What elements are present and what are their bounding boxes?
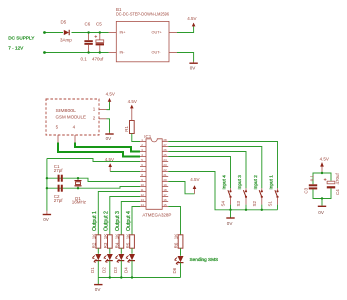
wire bottom supply rail	[45, 52, 109, 54]
capacitor C1	[54, 164, 64, 182]
capacitor C2	[54, 185, 64, 203]
wire top rail after diode	[72, 32, 109, 34]
svg-text:C3: C3	[304, 187, 309, 193]
svg-text:0V: 0V	[43, 217, 50, 222]
wire R6 to D6	[180, 248, 182, 256]
pin OUT+ stub B1	[169, 32, 177, 34]
svg-text:15: 15	[163, 203, 167, 207]
junction C3C4 top	[321, 172, 323, 174]
svg-text:4.5V: 4.5V	[320, 157, 329, 162]
svg-text:S1: S1	[268, 200, 273, 206]
svg-text:1K: 1K	[91, 234, 96, 240]
svg-text:Input 2: Input 2	[253, 175, 258, 190]
wire IC pin20 AVCC to 4.5V	[168, 182, 194, 194]
junction C5 top	[99, 31, 101, 33]
svg-text:D1: D1	[90, 267, 95, 273]
svg-text:Input 3: Input 3	[237, 175, 242, 190]
pin 1 stub GSM	[99, 109, 107, 111]
wire R2 to D1	[97, 248, 99, 254]
svg-text:4.5V: 4.5V	[106, 92, 115, 97]
LED D3	[113, 254, 124, 273]
svg-text:0V: 0V	[227, 221, 234, 226]
wire GSM pin2 to ground	[107, 119, 110, 133]
svg-text:IC1: IC1	[144, 134, 152, 139]
svg-text:SIM800L: SIM800L	[56, 108, 77, 113]
svg-text:Output 1: Output 1	[92, 211, 98, 231]
svg-text:23: 23	[163, 163, 167, 167]
svg-text:27pf: 27pf	[54, 198, 64, 203]
wire IC pin11 to output1 column	[98, 192, 140, 235]
wire VCC to IC pin7	[110, 171, 140, 173]
svg-text:D3: D3	[113, 267, 118, 273]
IC left pin stubs 1-14	[140, 142, 146, 207]
svg-text:GSM MODULE: GSM MODULE	[56, 115, 87, 120]
svg-text:Input 1: Input 1	[269, 175, 274, 190]
svg-text:20: 20	[163, 178, 167, 182]
svg-text:1K: 1K	[125, 234, 130, 240]
wire GSM pin1 to 4.5V	[107, 102, 110, 110]
svg-text:S3: S3	[236, 200, 241, 206]
wire C2 to IC pin10	[47, 187, 140, 189]
svg-text:1K: 1K	[174, 234, 179, 240]
wire IC pin12 to output2 column	[110, 197, 140, 235]
junction rail S2	[261, 209, 263, 211]
wire D1 to rail	[97, 261, 99, 278]
junction C3C4 bottom	[321, 197, 323, 199]
svg-text:4.5V: 4.5V	[105, 157, 114, 162]
switch S1	[268, 188, 279, 210]
junction C6 top	[87, 31, 89, 33]
svg-text:IN+: IN+	[120, 31, 127, 35]
module B1 DC-DC-STEP-DOWN-LM2596	[116, 7, 169, 62]
svg-text:26: 26	[163, 148, 167, 152]
svg-text:27: 27	[163, 143, 167, 147]
junction rail D4	[131, 276, 133, 278]
LED D6	[172, 256, 183, 274]
diode D5	[60, 20, 72, 43]
wire R1 to IC pin1	[132, 134, 140, 142]
svg-text:13: 13	[141, 198, 145, 202]
wire thick GSM pin5 to IC pin4	[58, 143, 140, 157]
svg-text:ATMEGA328P: ATMEGA328P	[142, 213, 171, 218]
junction C5 bottom	[99, 51, 101, 53]
svg-text:Sending SMS: Sending SMS	[190, 257, 219, 262]
wire R5 to D4	[131, 248, 133, 254]
svg-text:1K: 1K	[114, 234, 119, 240]
svg-text:28: 28	[163, 138, 167, 142]
resistor R5	[125, 234, 134, 249]
svg-text:12: 12	[141, 193, 145, 197]
IC right pin numbers	[163, 138, 167, 207]
wire IC pin13 to output3 column	[121, 202, 140, 235]
svg-text:Output 3: Output 3	[115, 211, 121, 231]
switch S4	[221, 188, 232, 210]
junction rail-C1	[46, 177, 48, 179]
svg-text:0V: 0V	[318, 210, 325, 215]
svg-text:27pf: 27pf	[54, 168, 64, 173]
svg-text:22: 22	[163, 168, 167, 172]
junction rail-C2	[46, 187, 48, 189]
svg-text:R1: R1	[124, 126, 129, 132]
supply +4.5V arrow (module output)	[187, 16, 196, 26]
svg-text:4.5V: 4.5V	[128, 99, 137, 104]
ground 0V (GSM)	[105, 133, 113, 142]
wire switch common rail	[168, 172, 277, 210]
supply +4.5V arrow (GSM)	[106, 92, 115, 102]
svg-text:S4: S4	[221, 200, 226, 206]
junction rail S3	[245, 209, 247, 211]
resistor R2	[91, 234, 100, 249]
svg-text:R3: R3	[103, 242, 108, 248]
svg-text:470uf: 470uf	[92, 57, 104, 62]
crystal Q1	[72, 178, 87, 204]
ground 0V (C3 C4)	[318, 199, 326, 215]
module GSM dashed box SIM800L	[46, 99, 99, 135]
resistor R1	[124, 121, 134, 134]
svg-text:4.5V: 4.5V	[190, 177, 199, 182]
wire LED ground rail	[98, 277, 180, 279]
svg-text:16: 16	[163, 198, 167, 202]
svg-text:OUT-: OUT-	[152, 51, 162, 55]
svg-text:25: 25	[163, 153, 167, 157]
svg-text:D4: D4	[124, 267, 129, 273]
svg-text:10: 10	[141, 183, 145, 187]
junction C6 bottom	[87, 51, 89, 53]
ground 0V (LED rail left)	[94, 278, 102, 292]
svg-text:1K: 1K	[103, 234, 108, 240]
svg-text:C4: C4	[335, 189, 340, 195]
svg-text:D5: D5	[61, 20, 67, 25]
LED D1	[90, 254, 101, 273]
wire IC pin28 to S1	[168, 142, 277, 189]
node top-left endpoint	[43, 31, 46, 34]
svg-text:0V: 0V	[95, 287, 102, 292]
svg-text:R2: R2	[91, 242, 96, 248]
svg-text:IN-: IN-	[120, 51, 126, 55]
svg-text:0.1: 0.1	[309, 174, 314, 181]
wire D3 to rail	[120, 261, 122, 278]
supply +4.5V arrow (VCC)	[105, 157, 114, 171]
svg-text:18: 18	[163, 188, 167, 192]
switch S2	[252, 188, 263, 210]
junction rail D3	[120, 276, 122, 278]
ground 0V (crystal rail)	[43, 211, 51, 222]
pin IN+ stub B1	[109, 32, 117, 34]
svg-text:0.1: 0.1	[81, 57, 88, 62]
capacitor C4	[324, 172, 340, 195]
svg-text:R5: R5	[125, 242, 130, 248]
svg-text:DC-DC-STEP-DOWN-LM2596: DC-DC-STEP-DOWN-LM2596	[116, 11, 169, 16]
svg-text:Input 4: Input 4	[222, 175, 227, 190]
pin IN- stub B1	[109, 52, 117, 54]
wire IC pin15 to R6	[168, 207, 180, 235]
wire R4 to D3	[120, 248, 122, 254]
svg-text:D2: D2	[102, 267, 107, 273]
wire OUT+ to 4.5V	[177, 27, 194, 33]
capacitor C5	[92, 22, 104, 62]
svg-text:S2: S2	[252, 200, 257, 206]
ground 0V (switch rail)	[226, 210, 234, 226]
svg-text:14: 14	[141, 203, 145, 207]
svg-text:7 - 12V: 7 - 12V	[8, 46, 24, 51]
svg-text:17: 17	[163, 193, 167, 197]
wire C3 C4 top rail	[313, 173, 331, 184]
IC right pin stubs 28-15	[162, 142, 168, 207]
wire ground rail to IC pin5	[47, 159, 140, 162]
switch S3	[236, 188, 247, 210]
wire thick GSM pin4 to IC pin3	[75, 143, 140, 152]
pin 5 stub GSM	[57, 135, 59, 143]
wire C3 C4 bottom rail	[313, 188, 331, 198]
wire IC pin26 to S3	[168, 152, 246, 189]
wire crystal left rail	[46, 159, 48, 211]
LED D2	[102, 254, 113, 273]
capacitor C6	[81, 22, 93, 62]
pin 4 stub GSM	[74, 135, 76, 143]
svg-text:16MHz: 16MHz	[72, 200, 87, 205]
svg-text:C5: C5	[96, 22, 102, 27]
wire IC pin14 to output4 column	[132, 207, 140, 235]
pin 2 stub GSM	[99, 118, 107, 120]
svg-text:19: 19	[163, 183, 167, 187]
svg-text:R6: R6	[174, 242, 179, 248]
capacitor C3	[304, 174, 318, 193]
svg-text:24: 24	[163, 158, 167, 162]
svg-text:Output 2: Output 2	[104, 211, 110, 231]
resistor R4	[114, 234, 123, 249]
svg-text:OUT+: OUT+	[152, 31, 163, 35]
svg-text:DC SUPPLY: DC SUPPLY	[8, 35, 35, 40]
svg-text:0V: 0V	[106, 136, 113, 141]
junction Q1 top	[77, 177, 79, 179]
IC IC1 ATMEGA328P body	[142, 134, 171, 218]
resistor R3	[103, 234, 112, 249]
LED D4	[124, 254, 135, 273]
supply +4.5V arrow (R1 pullup)	[128, 99, 137, 121]
supply +4.5V arrow (AVCC)	[190, 177, 199, 194]
svg-text:0V: 0V	[190, 66, 197, 71]
svg-text:11: 11	[141, 188, 144, 192]
wire OUT- to ground	[177, 53, 194, 62]
supply +4.5V arrow (C3 C4)	[320, 157, 329, 174]
svg-text:Output 4: Output 4	[126, 211, 132, 231]
junction rail D2	[109, 276, 111, 278]
wire R3 to D2	[109, 248, 111, 254]
svg-text:C6: C6	[85, 22, 91, 27]
wire IC pin27 to S2	[168, 147, 262, 189]
node bottom-left endpoint	[43, 51, 46, 54]
wire D4 to rail	[131, 261, 133, 278]
svg-text:3Amp: 3Amp	[60, 38, 72, 43]
svg-text:21: 21	[163, 173, 167, 177]
ground 0V (module output)	[189, 62, 197, 71]
resistor R6	[174, 234, 183, 249]
svg-text:470uf: 470uf	[335, 172, 340, 184]
svg-text:4.5V: 4.5V	[187, 16, 196, 21]
junction Q1 bottom	[77, 187, 79, 189]
wire C1 to IC pin9	[47, 178, 140, 181]
svg-text:R4: R4	[114, 242, 119, 248]
wire IC pin25 to S4	[168, 157, 230, 189]
wire D6 to rail	[180, 263, 182, 278]
pin OUT- stub B1	[169, 52, 177, 54]
svg-text:D6: D6	[172, 267, 177, 273]
wire D2 to rail	[109, 261, 111, 278]
junction rail S4	[229, 209, 231, 211]
IC left pin numbers	[141, 138, 145, 207]
wire top supply rail	[45, 32, 64, 34]
